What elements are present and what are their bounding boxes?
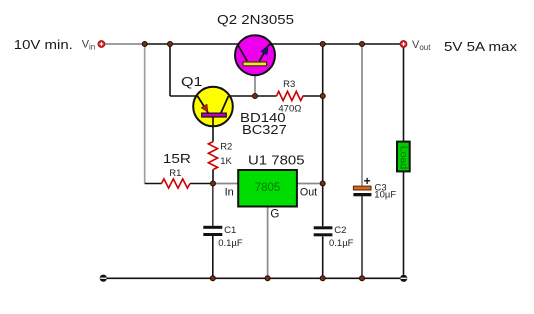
svg-text:R3: R3 (283, 79, 295, 90)
transistor Q2 (235, 35, 275, 75)
node junction bottom C2 (320, 276, 325, 281)
wire vertical x=362 top rail down to C3 (361, 44, 363, 186)
wire R2 to In node (212, 170, 214, 184)
node junction top rail 1 (142, 42, 147, 47)
wire bottom rail (107, 277, 401, 279)
terminal Vout (400, 41, 407, 48)
wire G drop (267, 207, 269, 279)
terminal ground left (100, 275, 107, 282)
resistor R2 (208, 142, 217, 170)
wire In stub (213, 183, 238, 185)
svg-text:470Ω: 470Ω (278, 104, 301, 115)
svg-text:10V min.: 10V min. (14, 37, 73, 52)
svg-text:R1: R1 (169, 168, 181, 179)
wire Out stub (297, 183, 323, 185)
svg-text:C1: C1 (224, 225, 236, 236)
svg-text:In: In (225, 187, 234, 199)
svg-text:Q1: Q1 (181, 74, 203, 89)
resistor R1 (162, 179, 190, 188)
svg-text:C2: C2 (334, 225, 346, 236)
svg-text:U1 7805: U1 7805 (248, 153, 305, 168)
svg-text:Out: Out (300, 186, 317, 198)
resistor Load (397, 142, 410, 172)
wire top rail Q2 to Vout (272, 43, 400, 45)
terminal ground right (400, 275, 407, 282)
terminal Vin (98, 41, 105, 48)
svg-text:0.1µF: 0.1µF (218, 238, 243, 249)
svg-text:1K: 1K (220, 156, 232, 167)
IC U1 7805 (238, 170, 297, 207)
transistor Q1 (193, 87, 233, 127)
node junction In (211, 181, 216, 186)
resistor R3 (277, 91, 304, 100)
wire vertical grey from top rail to R1 (144, 44, 146, 184)
capacitor C3 electrolytic (353, 174, 371, 197)
node junction R3 right (320, 94, 325, 99)
wire R1 right lead to node (190, 183, 213, 185)
wire vertical x=323 top rail down to C2 (322, 44, 324, 226)
svg-text:R2: R2 (220, 141, 232, 152)
wire C1 top lead (212, 184, 214, 226)
svg-text:+: + (364, 174, 371, 188)
wire R1 left lead (145, 183, 162, 185)
capacitor C1 (203, 226, 222, 236)
wire C3 bottom to rail (361, 196, 363, 278)
node junction bottom C1 (210, 276, 215, 281)
wire R3 to vertical node (303, 95, 323, 97)
svg-text:Load: Load (397, 146, 408, 170)
node junction bottom G (265, 276, 270, 281)
svg-text:5V 5A max: 5V 5A max (444, 39, 517, 54)
wire Vout down through Load (403, 48, 405, 275)
svg-text:0.1µF: 0.1µF (329, 238, 354, 249)
wire vertical to Q1 emitter (170, 44, 197, 96)
svg-text:Q2 2N3055: Q2 2N3055 (217, 12, 294, 27)
svg-text:10µF: 10µF (374, 190, 396, 201)
svg-text:BC327: BC327 (242, 122, 287, 137)
wire Q1 base to R2 (212, 117, 214, 141)
node junction Q2 base (253, 94, 258, 99)
wire Q2 base drop (254, 66, 256, 97)
node junction top rail 4 (360, 42, 365, 47)
wire C2 bottom to rail (322, 236, 324, 278)
node junction Out (320, 181, 325, 186)
node junction top rail 2 (168, 42, 173, 47)
capacitor C2 (314, 226, 333, 236)
node junction bottom C3 (360, 276, 365, 281)
wire Q1 collector to R3 (230, 95, 277, 97)
wire C1 bottom lead (212, 236, 214, 278)
svg-text:7805: 7805 (255, 182, 281, 194)
wire top rail Vin to Q2 (105, 43, 239, 45)
svg-text:15R: 15R (163, 151, 191, 166)
node junction top rail 3 (320, 42, 325, 47)
svg-text:G: G (270, 208, 279, 220)
